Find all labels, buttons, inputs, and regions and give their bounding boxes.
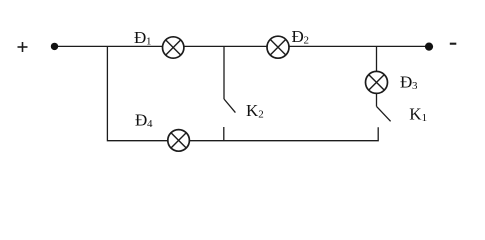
svg-text:1: 1 (146, 36, 152, 48)
svg-text:4: 4 (147, 118, 153, 130)
svg-text:K: K (409, 104, 422, 123)
svg-text:2: 2 (304, 35, 310, 47)
svg-text:Đ: Đ (134, 28, 146, 47)
svg-text:2: 2 (258, 109, 264, 121)
svg-text:1: 1 (422, 112, 428, 124)
svg-text:Đ: Đ (292, 27, 304, 46)
svg-text:3: 3 (412, 80, 418, 92)
svg-text:Đ: Đ (400, 72, 412, 91)
svg-text:K: K (246, 101, 259, 120)
svg-text:Đ: Đ (135, 110, 147, 129)
